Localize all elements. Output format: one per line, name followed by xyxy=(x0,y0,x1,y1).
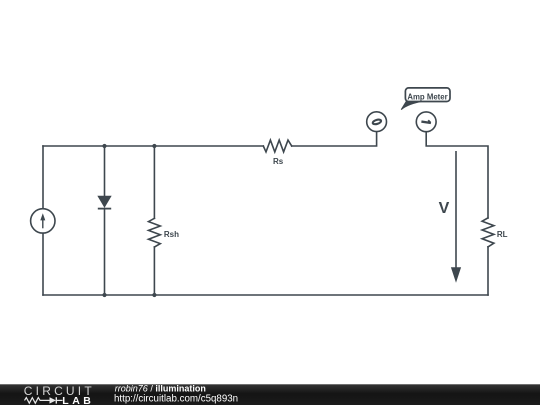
current source I1 xyxy=(31,209,55,233)
resistor Rs xyxy=(263,140,291,152)
svg-text:http://circuitlab.com/c5q893n: http://circuitlab.com/c5q893n xyxy=(114,393,238,404)
junction dot top Rsh xyxy=(152,144,156,148)
logo line to LAB xyxy=(56,399,62,401)
svg-text:Rs: Rs xyxy=(273,157,284,166)
svg-text:V: V xyxy=(439,200,450,217)
logo diode arrow xyxy=(50,397,57,403)
junction dot top diode xyxy=(102,144,106,148)
svg-text:RL: RL xyxy=(497,230,508,239)
wire top right to node 0 xyxy=(292,132,377,146)
Amp Meter callout xyxy=(401,88,450,110)
wire Rsh branch lower xyxy=(153,247,155,295)
wire left vertical upper xyxy=(42,146,44,209)
junction dot bottom Rsh xyxy=(152,293,156,297)
node 0 meter xyxy=(367,112,387,132)
node 1 meter xyxy=(416,112,436,132)
logo diode bar xyxy=(55,397,57,403)
svg-text:Rsh: Rsh xyxy=(164,230,179,239)
wire bottom horizontal xyxy=(43,294,488,296)
resistor RL xyxy=(482,218,494,247)
svg-text:rrobin76 / illumination: rrobin76 / illumination xyxy=(115,384,206,394)
junction dot bottom diode xyxy=(102,293,106,297)
diode D1 xyxy=(98,196,111,208)
logo zigzag xyxy=(25,398,50,404)
wire left vertical lower xyxy=(42,233,44,295)
svg-text:LAB: LAB xyxy=(62,395,94,405)
svg-text:Amp Meter: Amp Meter xyxy=(407,92,447,101)
wire diode branch lower xyxy=(104,209,106,295)
wire top left horizontal xyxy=(43,145,263,147)
wire right vertical lower xyxy=(487,247,489,295)
resistor Rsh xyxy=(149,218,161,247)
V arrow xyxy=(451,151,461,283)
wire diode branch upper xyxy=(104,146,106,196)
wire Rsh branch upper xyxy=(153,146,155,218)
footer bar xyxy=(0,384,540,405)
wire from node 1 down and right xyxy=(426,132,488,218)
